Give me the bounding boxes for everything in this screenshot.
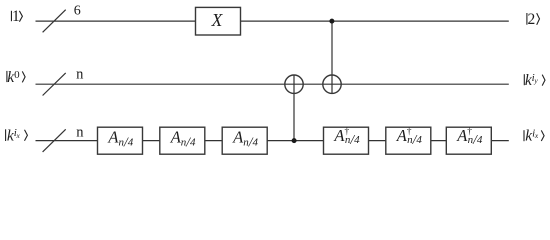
svg-text:0: 0 (14, 69, 20, 81)
svg-text:6: 6 (74, 4, 81, 19)
svg-text:X: X (211, 10, 224, 30)
svg-text:n: n (76, 67, 84, 83)
svg-text:x: x (534, 131, 539, 140)
svg-text:2: 2 (528, 11, 536, 28)
svg-text:y: y (533, 76, 538, 85)
svg-text:x: x (16, 131, 21, 140)
svg-text:1: 1 (12, 8, 20, 25)
svg-text:n: n (76, 124, 84, 140)
